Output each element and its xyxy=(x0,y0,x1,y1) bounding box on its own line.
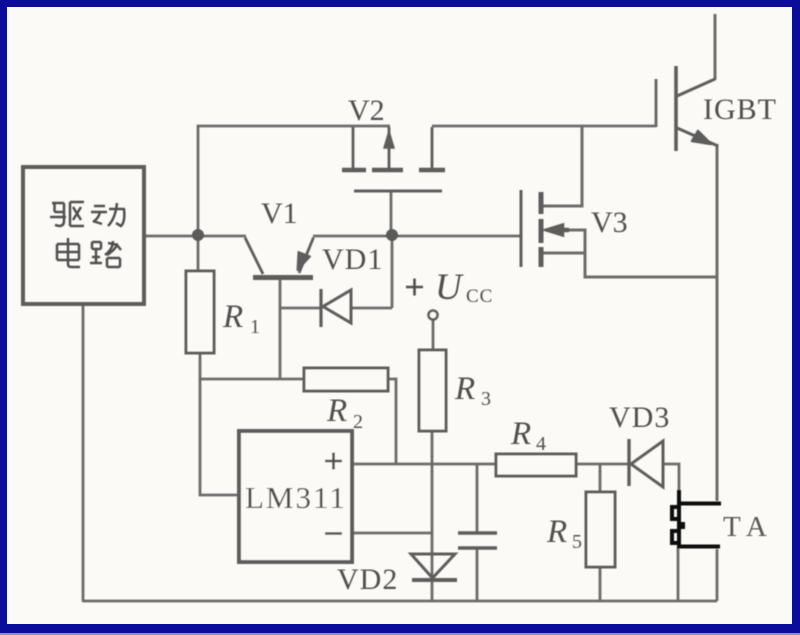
svg-text:R: R xyxy=(546,514,567,550)
svg-text:V3: V3 xyxy=(591,206,628,239)
svg-text:VD1: VD1 xyxy=(322,243,383,276)
svg-text:CC: CC xyxy=(466,286,493,307)
svg-text:1: 1 xyxy=(250,316,260,338)
resistor R2 xyxy=(304,368,388,391)
svg-text:2: 2 xyxy=(353,411,363,433)
svg-text:R: R xyxy=(510,416,531,452)
wire: node B to V3 gate xyxy=(392,235,520,238)
label 驱 xyxy=(50,202,84,226)
label R5 xyxy=(546,514,582,553)
IGBT emitter arrow xyxy=(692,131,711,144)
border frame bottom light edge xyxy=(0,633,800,635)
IGBT collector diagonal xyxy=(677,79,715,96)
capacitor C xyxy=(458,533,497,548)
resistor R4 xyxy=(496,454,576,476)
label +Ucc xyxy=(406,279,423,296)
node A junction dot xyxy=(192,229,204,241)
wire: V3 source and body to emitter line xyxy=(543,230,717,277)
wire: R1 top lead xyxy=(197,236,200,271)
wire: drive box to node A xyxy=(146,235,246,238)
svg-text:U: U xyxy=(435,267,464,308)
svg-text:V1: V1 xyxy=(261,197,298,230)
svg-text:R: R xyxy=(454,371,475,407)
supply terminal Ucc xyxy=(428,310,437,319)
svg-text:4: 4 xyxy=(536,433,546,455)
wire: R3 to VD2 vertical down to ground rail xyxy=(431,431,434,601)
mosfet V2 source and body stubs xyxy=(353,127,432,168)
mosfet V2 gate line xyxy=(354,190,442,193)
diode VD2 xyxy=(411,554,457,580)
wire: R2 right lead down to plus wire xyxy=(388,379,396,464)
IGBT emitter diagonal xyxy=(677,128,718,146)
svg-text:VD3: VD3 xyxy=(609,401,670,434)
LM311 minus pin mark xyxy=(325,532,342,535)
label 路 xyxy=(90,241,121,267)
label R3 xyxy=(454,371,491,410)
svg-text:5: 5 xyxy=(572,531,582,553)
label R2 xyxy=(326,393,363,433)
wire: R4 right to VD3 xyxy=(576,463,629,466)
drive circuit box 驱动电路 xyxy=(23,167,144,304)
wire: V1 base lead down xyxy=(279,279,282,379)
TA winding tick xyxy=(679,522,685,529)
mosfet V2 body arrow up xyxy=(384,131,394,148)
diode VD3 xyxy=(629,439,663,487)
IGBT body bar xyxy=(674,66,678,151)
wire: bottom rail xyxy=(82,600,717,603)
resistor R3 xyxy=(419,350,446,431)
LM311 plus pin mark xyxy=(325,453,342,470)
wire: TA left below to rail xyxy=(677,547,680,601)
wire: LM311 plus-input left wire xyxy=(200,379,239,495)
transistor V1 xyxy=(245,238,314,278)
label 动 xyxy=(91,203,125,226)
wire: LM311 plus output wire to R4 xyxy=(352,463,496,466)
mosfet V3 body arrow xyxy=(545,225,563,236)
svg-text:R: R xyxy=(222,299,243,335)
svg-text:T A: T A xyxy=(723,511,767,543)
wire: VD3 output down to TA xyxy=(663,464,679,503)
resistor R5 xyxy=(586,492,615,567)
wire: R1 bottom lead and node wire to R2 xyxy=(200,353,304,379)
diode VD1 xyxy=(321,289,351,327)
svg-text:VD2: VD2 xyxy=(337,563,398,596)
wire: LM311 minus wire xyxy=(352,532,432,535)
wire: IGBT emitter vertical down to TA xyxy=(716,144,719,501)
wire: node A up to V2 source rail xyxy=(198,126,390,236)
wire: V2 drain rail to IGBT gate xyxy=(432,125,656,128)
label 电 xyxy=(57,238,80,267)
svg-text:R: R xyxy=(326,393,347,429)
svg-text:V2: V2 xyxy=(348,94,385,127)
comparator LM311 box xyxy=(239,431,352,562)
wire: IGBT collector up xyxy=(714,14,717,80)
wire: node B down to VD1 xyxy=(391,236,394,308)
mosfet V2 channel bars xyxy=(342,168,445,173)
mosfet V3 gate bar xyxy=(520,190,523,267)
node B junction dot xyxy=(386,229,398,241)
wire: R5 leads xyxy=(599,464,602,601)
label R1 xyxy=(222,299,260,338)
svg-text:3: 3 xyxy=(481,388,491,410)
wire: V3 drain connection xyxy=(543,126,582,206)
wire: V2 gate lead down to node B xyxy=(390,191,393,236)
transistor V1 emitter arrow xyxy=(298,252,311,270)
wire: drive box bottom lead xyxy=(82,306,85,601)
wire: TA right vertical to rail xyxy=(716,549,719,601)
wire: Ucc terminal lead xyxy=(432,320,435,350)
svg-text:IGBT: IGBT xyxy=(703,93,777,126)
wire: VD1 horizontal xyxy=(280,307,392,310)
wire: capacitor leads xyxy=(476,464,479,601)
wire: V1 emitter to node B xyxy=(313,235,392,238)
current transformer TA xyxy=(672,490,721,547)
resistor R1 xyxy=(186,271,214,353)
svg-text:LM311: LM311 xyxy=(245,480,347,515)
label R4 xyxy=(510,416,546,455)
IGBT gate electrode xyxy=(655,79,658,127)
mosfet V3 channel contact bars xyxy=(539,192,544,267)
